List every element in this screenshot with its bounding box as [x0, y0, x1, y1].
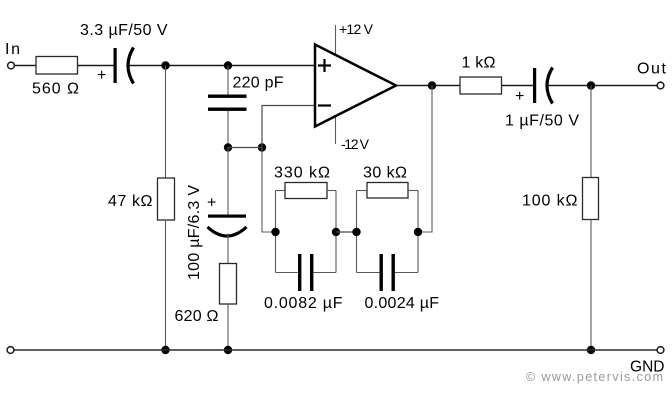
wire: loop1 left vertical [275, 191, 277, 273]
wire: input rail from In terminal to 560R [15, 65, 37, 67]
capacitor 100uF/6.3V (polarized) top plate [208, 215, 246, 218]
svg-text:220 pF: 220 pF [233, 75, 284, 92]
junction dot: loop1 left [271, 228, 279, 236]
wire: 560R to C3.3u plate [78, 65, 114, 67]
svg-text:+: + [207, 195, 216, 212]
wire: loop1 bottom branch left stub [276, 272, 299, 274]
label: op-amp - input [318, 104, 331, 106]
svg-text:330 kΩ: 330 kΩ [274, 165, 330, 182]
capacitor C 1uF/50V (polarized) plate [533, 68, 536, 103]
wire: feedback from node E down to network [418, 86, 432, 233]
wire: node B down to C220p [227, 66, 229, 95]
svg-text:0.0082 µF: 0.0082 µF [264, 295, 343, 312]
svg-text:1 µF/50 V: 1 µF/50 V [505, 113, 579, 130]
wire: connector between loop1 and loop2 [336, 231, 357, 233]
wire: C100u to 620R [227, 234, 229, 264]
svg-text:100 µF/6.3 V: 100 µF/6.3 V [186, 185, 203, 280]
wire: 100k down to ground rail [590, 220, 592, 351]
svg-text:-12 V: -12 V [341, 136, 370, 152]
node F junction dot (output node) [587, 81, 595, 89]
wire: loop2 bottom branch right stub [395, 272, 418, 274]
capacitor C 1uF/50V curved plate [547, 68, 553, 104]
wire: loop2 top branch left stub [357, 190, 368, 192]
wire: ground rail [14, 349, 657, 351]
node A junction dot [161, 61, 169, 69]
node E junction dot (output/feedback) [428, 81, 436, 89]
svg-text:30 kΩ: 30 kΩ [363, 165, 407, 182]
svg-text:47 kΩ: 47 kΩ [108, 193, 153, 210]
wire: loop2 right vertical [417, 191, 419, 273]
svg-text:+: + [97, 67, 106, 84]
svg-text:© www.petervis.com: © www.petervis.com [526, 370, 663, 384]
svg-text:In: In [5, 41, 20, 58]
wire: op-amp inverting input stub [262, 106, 315, 148]
wire: 47k down to ground rail [165, 220, 167, 350]
resistor 560R [36, 57, 78, 75]
svg-text:3.3 µF/50 V: 3.3 µF/50 V [80, 22, 168, 39]
junction dot: 620R at ground rail [224, 346, 232, 354]
capacitor 100uF/6.3V curved plate [208, 227, 247, 236]
op-amp U1 triangle [315, 45, 396, 127]
wire: node C down to C100u [227, 148, 229, 215]
wire: op-amp -12V supply [335, 110, 337, 144]
resistor 330k [285, 183, 327, 199]
wire: C1u to Out terminal [547, 85, 657, 87]
junction dot: loop2 right [414, 228, 422, 236]
junction dot: 47k at ground rail [161, 346, 169, 354]
wire: loop1 top branch right stub [327, 190, 336, 192]
svg-text:1 kΩ: 1 kΩ [462, 55, 496, 72]
capacitor 220pF plates [208, 95, 247, 98]
svg-text:Out: Out [637, 61, 667, 78]
wire: 620R down to ground rail [227, 304, 229, 350]
terminal: Out [657, 82, 664, 89]
capacitor C 3.3uF/50V (polarized) plate [114, 48, 117, 83]
wire: node D down to feedback rail [262, 148, 276, 233]
terminal: GND [657, 347, 664, 354]
svg-text:100 kΩ: 100 kΩ [522, 193, 578, 210]
wire: loop1 bottom branch right stub [314, 272, 337, 274]
wire: loop2 bottom branch left stub [357, 272, 380, 274]
wire: loop2 top branch right stub [408, 190, 418, 192]
terminal: ground rail left [7, 347, 14, 354]
svg-text:560 Ω: 560 Ω [32, 81, 79, 98]
node D junction dot [258, 143, 266, 151]
junction dot: loop1 right [332, 228, 340, 236]
wire: node A down to 47k [165, 66, 167, 179]
resistor 30k [367, 183, 408, 199]
resistor 47k [158, 178, 175, 220]
resistor 620R [220, 264, 237, 305]
svg-text:+12 V: +12 V [339, 21, 374, 37]
junction dot: 100k at ground rail [587, 346, 595, 354]
wire: loop1 right vertical [335, 191, 337, 273]
resistor 100k [583, 178, 599, 220]
wire: op-amp output to 1k [396, 85, 460, 87]
capacitor C 3.3uF/50V curved plate [128, 48, 134, 84]
wire: C3.3u to op-amp + input (through nodes A and B) [128, 65, 315, 67]
wire: loop2 left vertical [356, 191, 358, 273]
wire: loop1 top branch left stub [276, 190, 286, 192]
svg-text:0.0024 µF: 0.0024 µF [365, 295, 440, 312]
resistor 1k [460, 77, 502, 94]
capacitor 0.0024uF plates [380, 254, 383, 291]
junction dot: loop2 left [352, 228, 360, 236]
label: op-amp + input [318, 59, 331, 72]
node B junction dot [224, 61, 232, 69]
wire: node F down to 100k [590, 86, 592, 178]
wire: 1k to C1u [502, 85, 534, 87]
svg-text:620 Ω: 620 Ω [175, 308, 219, 325]
capacitor 0.0082uF plates [298, 254, 301, 291]
svg-text:+: + [515, 88, 524, 105]
wire: C220p down to node C [227, 111, 229, 148]
terminal: In [8, 62, 15, 69]
node C junction dot [224, 143, 232, 151]
wire: node C to node D [228, 147, 262, 149]
wire: op-amp +12V supply [335, 25, 337, 65]
